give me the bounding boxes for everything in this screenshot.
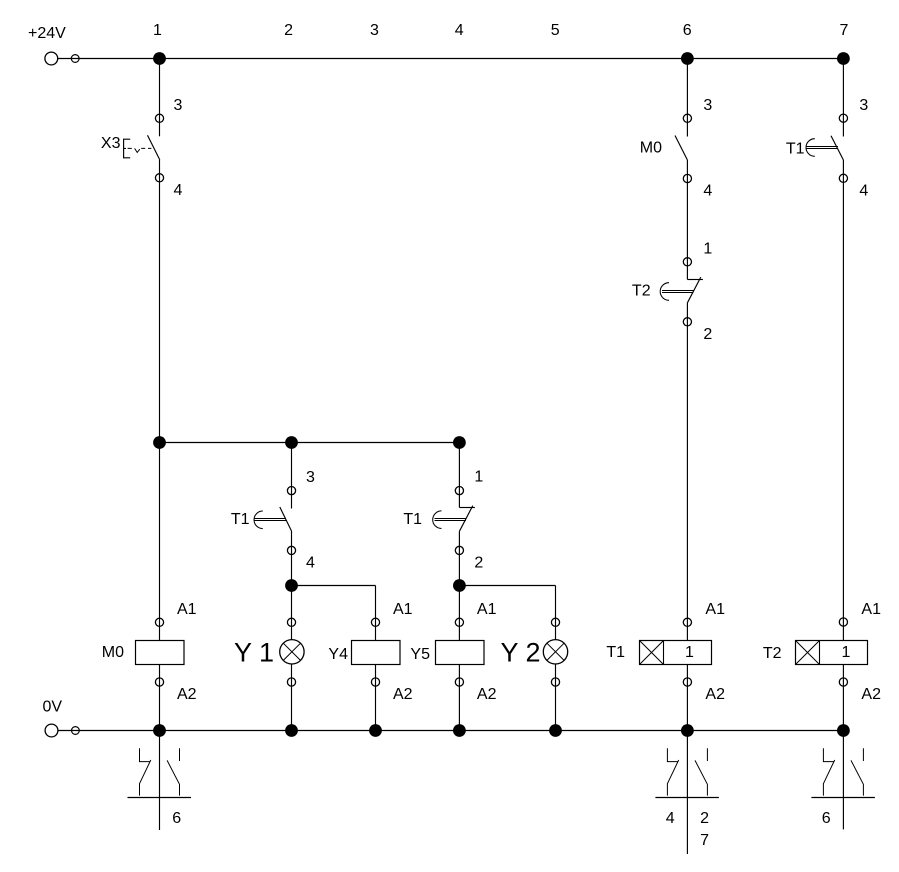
wire col1 +24V rail to X3	[159, 59, 161, 137]
wire M0 contact to T2 contact	[686, 160, 688, 280]
T2 timer A2 terminal circle	[839, 678, 847, 686]
timer contact T1 delay symbol lines (path 2)	[255, 519, 287, 521]
X3 pin 4 terminal circle	[155, 174, 163, 182]
indicator lamp Y2	[543, 640, 567, 664]
wire T1 timer to 0V rail	[686, 665, 688, 731]
Y4 coil A2 terminal circle	[371, 678, 379, 686]
relay coil M0	[136, 641, 185, 665]
svg-text:5: 5	[551, 22, 560, 39]
T1 timer A1 terminal circle	[683, 618, 691, 626]
svg-text:T2: T2	[763, 645, 782, 662]
svg-text:4: 4	[174, 182, 183, 199]
net 0V return rail wire	[58, 730, 843, 732]
timer contact T1 delay symbol lines (path 4)	[435, 519, 466, 521]
svg-text:M0: M0	[640, 140, 662, 157]
svg-text:6: 6	[822, 810, 831, 827]
contact mirror for timer T2 (usage: NC in path 6)	[842, 731, 844, 830]
T2 timer A1 terminal circle	[839, 618, 847, 626]
lamp Y1 upper terminal circle	[287, 618, 295, 626]
svg-text:A2: A2	[393, 686, 413, 703]
lamp Y1 lower terminal circle	[287, 678, 295, 686]
timer contact T1 NC stop bar (path 4)	[459, 507, 475, 509]
contact mirror for timer T1 (usage: NC path 4, NO paths 2,7)	[686, 731, 688, 855]
T1 contact pin 3 terminal circle (path 7)	[839, 114, 847, 122]
timer relay T2 body	[796, 641, 868, 665]
svg-text:3: 3	[703, 97, 712, 114]
wire T1 contact to branch node	[291, 531, 293, 586]
lamp Y2 lower terminal circle	[551, 678, 559, 686]
wire branch col2 to col3	[292, 585, 376, 587]
svg-text:2: 2	[700, 810, 709, 827]
svg-text:2: 2	[284, 22, 293, 39]
svg-text:T1: T1	[606, 644, 625, 661]
svg-text:1: 1	[474, 469, 483, 486]
limit switch X3 actuator dashed link	[128, 148, 152, 152]
svg-text:Y5: Y5	[410, 646, 430, 663]
svg-text:4: 4	[703, 183, 712, 200]
timer contact T1 delay symbol arc (path 4)	[433, 511, 442, 529]
wire col4 branch node to Y5 coil	[458, 586, 460, 641]
wire T1 NC contact to branch node	[458, 531, 460, 585]
timer contact T2 delay symbol lines	[662, 291, 693, 293]
wire branch col4 to col5	[459, 585, 555, 587]
svg-text:M0: M0	[102, 644, 124, 661]
svg-text:T2: T2	[632, 283, 651, 300]
M0 contact pin 4 terminal circle	[683, 174, 691, 182]
timer contact T1 NO blade (path 7)	[831, 136, 843, 160]
T1 NC contact pin 1 terminal circle	[455, 487, 463, 495]
M0 coil A1 terminal circle	[155, 618, 163, 626]
solenoid coil Y5	[436, 641, 485, 665]
T2 contact pin 2 terminal circle	[683, 318, 691, 326]
X3 pin 3 terminal circle	[155, 114, 163, 122]
Y4 coil A1 terminal circle	[371, 618, 379, 626]
wire Y4 coil to 0V rail	[375, 665, 377, 731]
junction node col2/branch row	[285, 579, 298, 592]
T1 contact pin 4 terminal circle (path 7)	[839, 174, 847, 182]
wire T2 timer to 0V rail	[842, 665, 844, 731]
svg-text:A1: A1	[861, 601, 881, 618]
timer relay T1 body	[640, 641, 712, 665]
0V terminal small circle	[72, 727, 80, 735]
+24V terminal large circle	[45, 52, 58, 65]
timer contact T1 delay symbol arc (path 7)	[806, 139, 815, 157]
wire col5 branch to lamp Y2	[555, 586, 557, 640]
Y5 coil A2 terminal circle	[455, 678, 463, 686]
limit switch X3 actuator bracket	[124, 139, 131, 158]
svg-text:Y 2: Y 2	[501, 638, 541, 668]
svg-text:7: 7	[700, 832, 709, 849]
junction node col1/junction row	[153, 436, 166, 449]
svg-text:3: 3	[859, 97, 868, 114]
junction node 0V rail/col1	[153, 724, 166, 737]
T1 contact pin 3 terminal circle	[287, 487, 295, 495]
T1 NC contact pin 2 terminal circle	[455, 546, 463, 554]
svg-text:T1: T1	[786, 141, 805, 158]
wire lamp Y2 to 0V rail	[555, 664, 557, 731]
timer contact T1 NO blade (path 2)	[280, 507, 292, 531]
timer contact T1 delay symbol lines (path 7)	[807, 147, 838, 149]
junction node rail/col1	[153, 52, 166, 65]
junction node 0V rail/col3	[369, 724, 382, 737]
junction node 0V rail/col7	[837, 724, 850, 737]
wire col7 +24V rail to T1 contact	[842, 59, 844, 137]
0V terminal large circle	[45, 724, 58, 737]
svg-text:A1: A1	[177, 601, 197, 618]
wire col2 junction row to T1 contact	[291, 443, 293, 509]
solenoid coil Y4	[352, 641, 401, 665]
wire junction row col1-col4	[160, 442, 460, 444]
M0 contact pin 3 terminal circle	[683, 114, 691, 122]
junction node rail/col7	[837, 52, 850, 65]
junction node 0V rail/col4	[453, 724, 466, 737]
svg-text:3: 3	[370, 22, 379, 39]
svg-text:6: 6	[172, 810, 181, 827]
T1 timer A2 terminal circle	[683, 678, 691, 686]
wire col3 branch to Y4 coil	[375, 586, 377, 641]
svg-text:2: 2	[703, 326, 712, 343]
svg-text:A2: A2	[705, 686, 725, 703]
svg-text:A1: A1	[393, 601, 413, 618]
M0 coil A2 terminal circle	[155, 678, 163, 686]
wire Y5 coil to 0V rail	[458, 665, 460, 731]
svg-text:A2: A2	[177, 686, 197, 703]
svg-text:1: 1	[153, 22, 162, 39]
T1 contact pin 4 terminal circle	[287, 546, 295, 554]
limit switch X3 contact blade	[148, 135, 160, 160]
svg-text:0V: 0V	[43, 699, 63, 716]
svg-text:7: 7	[840, 22, 849, 39]
wire T1 contact to T2 timer coil	[842, 160, 844, 641]
timer contact T1 delay symbol arc (path 2)	[254, 511, 263, 529]
svg-text:1: 1	[685, 644, 694, 661]
junction node col4/branch row	[453, 579, 466, 592]
svg-text:2: 2	[474, 554, 483, 571]
Y5 coil A1 terminal circle	[455, 618, 463, 626]
svg-text:4: 4	[455, 22, 464, 39]
svg-text:1: 1	[842, 644, 851, 661]
wire col1 junction row to M0 coil	[159, 443, 161, 641]
indicator lamp Y1	[280, 640, 304, 664]
junction node rail/col6	[681, 52, 694, 65]
svg-text:6: 6	[683, 22, 692, 39]
timer contact T1 NC blade (path 4)	[459, 506, 472, 532]
timer contact T2 NC stop bar	[687, 279, 703, 281]
T2 contact pin 1 terminal circle	[683, 258, 691, 266]
svg-text:A2: A2	[477, 686, 497, 703]
wire col6 +24V rail to M0 contact	[686, 59, 688, 137]
svg-text:1: 1	[703, 240, 712, 257]
svg-text:4: 4	[666, 810, 675, 827]
junction node 0V rail/col5	[549, 724, 562, 737]
junction node 0V rail/col2	[285, 724, 298, 737]
svg-text:4: 4	[306, 554, 315, 571]
svg-text:T1: T1	[403, 511, 422, 528]
contact mirror for relay M0 (usage: NO in path 6)	[159, 731, 161, 831]
svg-text:Y4: Y4	[328, 646, 348, 663]
svg-text:4: 4	[859, 182, 868, 199]
wire M0 coil to 0V rail	[159, 665, 161, 731]
svg-text:A2: A2	[861, 686, 881, 703]
timer contact T2 NC blade	[687, 277, 700, 303]
wire T2 contact to T1 timer coil	[686, 303, 688, 641]
net +24V supply rail wire	[58, 58, 844, 60]
svg-text:3: 3	[306, 469, 315, 486]
wire lamp Y1 to 0V rail	[291, 664, 293, 731]
svg-text:A1: A1	[477, 601, 497, 618]
relay contact M0 NO blade	[675, 136, 687, 161]
svg-text:+24V: +24V	[28, 25, 66, 42]
svg-text:X3: X3	[101, 135, 121, 152]
svg-text:A1: A1	[705, 601, 725, 618]
junction node col4/junction row	[453, 436, 466, 449]
svg-text:T1: T1	[231, 511, 250, 528]
wire col1 X3 to junction row	[159, 160, 161, 443]
svg-text:3: 3	[174, 97, 183, 114]
+24V terminal small circle	[71, 55, 79, 63]
timer contact T2 delay symbol arc	[660, 283, 669, 301]
wire col4 junction row to T1 NC contact	[458, 443, 460, 508]
lamp Y2 upper terminal circle	[551, 618, 559, 626]
wire col2 branch node to lamp Y1	[291, 586, 293, 640]
junction node 0V rail/col6	[681, 724, 694, 737]
svg-text:Y 1: Y 1	[234, 638, 274, 668]
junction node col2/junction row	[285, 436, 298, 449]
